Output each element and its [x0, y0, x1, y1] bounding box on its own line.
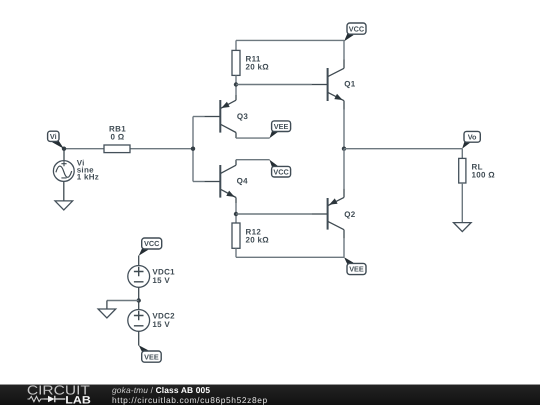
svg-text:Vo: Vo: [468, 132, 477, 141]
wire input node to RB1: [64, 148, 104, 150]
node label VCC at Q4: [269, 160, 290, 177]
svg-text:Vi: Vi: [50, 132, 57, 141]
resistor R11: [232, 50, 240, 75]
svg-text:Q3: Q3: [237, 112, 249, 121]
node label VEE at Q2: [344, 257, 366, 275]
junction supply midpoint: [137, 298, 141, 302]
voltage source VDC1: [128, 266, 150, 288]
wire Q4 collector to VCC: [235, 160, 237, 166]
junction node input: [191, 147, 195, 151]
wire Vi source top: [63, 149, 65, 161]
wire Q4 emitter to R12: [235, 198, 237, 204]
node label VCC at Q1: [344, 23, 366, 41]
footer title line: [112, 386, 210, 396]
ground at Vi: [55, 201, 73, 210]
svg-text:VCC: VCC: [273, 167, 289, 176]
footer logo CIRCUIT LAB: [0, 384, 120, 405]
wire supply mid to ground: [107, 300, 139, 302]
wire R12 bottom rail to Q2 collector: [235, 248, 237, 257]
svg-text:100 Ω: 100 Ω: [472, 171, 496, 180]
svg-text:Q4: Q4: [237, 176, 249, 185]
svg-text:VCC: VCC: [349, 24, 365, 33]
junction R12 top / Q2 base: [234, 212, 238, 216]
transistor Q4 (NPN): [220, 165, 236, 198]
label Vi sine 1 kHz: [77, 159, 99, 182]
junction R11 bottom / Q1 base: [234, 82, 238, 86]
svg-text:0 Ω: 0 Ω: [111, 132, 125, 141]
wire bias bases vertical: [192, 117, 194, 182]
wire Q2 emitter: [343, 149, 345, 189]
transistor Q2 (PNP): [328, 197, 344, 229]
svg-text:Q2: Q2: [344, 210, 356, 219]
wire output to RL: [344, 148, 462, 150]
svg-text:20 kΩ: 20 kΩ: [246, 235, 270, 244]
transistor Q3 (PNP): [220, 100, 236, 133]
svg-text:20 kΩ: 20 kΩ: [246, 63, 270, 72]
label VDC1 15V: [152, 267, 175, 285]
wire RB1 to bias input junction: [130, 148, 193, 150]
node label VCC at VDC1: [139, 238, 162, 256]
wire Q1 base: [236, 84, 312, 86]
svg-text:VEE: VEE: [349, 265, 364, 274]
transistor Q1 (NPN): [328, 68, 344, 101]
svg-text:VDC1: VDC1: [152, 267, 175, 276]
svg-text:15 V: 15 V: [152, 320, 170, 329]
resistor RL: [459, 158, 466, 183]
label R11 20k: [246, 55, 270, 72]
wire Q4 base: [193, 181, 204, 183]
wire Q2 collector: [343, 230, 345, 239]
voltage source VDC2: [128, 310, 150, 332]
ground at RL: [454, 223, 472, 232]
wire Q1 collector: [343, 40, 345, 59]
wire Q3 base: [193, 116, 204, 118]
wire VCC to VDC1: [138, 256, 140, 266]
node label Vi: [48, 131, 64, 149]
svg-text:LAB: LAB: [65, 395, 91, 405]
junction output node: [342, 147, 346, 151]
svg-text:VEE: VEE: [274, 122, 289, 131]
svg-text:1 kHz: 1 kHz: [77, 173, 99, 182]
footer url line: [112, 396, 268, 405]
wire Vo to RL: [461, 149, 463, 159]
wire Q1 emitter to output: [343, 101, 345, 110]
voltage source Vi (sine): [53, 161, 74, 182]
node label Vo: [462, 131, 480, 148]
wire R11 top to VCC rail: [235, 40, 237, 50]
resistor R12: [232, 223, 240, 248]
label RB1 0 ohm: [109, 125, 126, 142]
wire Vi source bottom: [63, 181, 65, 201]
svg-text:Q1: Q1: [344, 80, 356, 89]
logo diode: [43, 398, 48, 400]
wire Q3 collector to VEE: [235, 133, 237, 139]
node label VEE at Q3: [269, 121, 290, 138]
node label VEE at VDC2: [139, 345, 162, 362]
svg-text:VCC: VCC: [144, 239, 160, 248]
wire Q2 base: [236, 213, 312, 215]
svg-text:15 V: 15 V: [152, 276, 170, 285]
resistor RB1: [104, 145, 130, 153]
wire top rail: [236, 39, 344, 41]
wire VDC2 to VEE: [138, 331, 140, 345]
junction Vi top: [62, 147, 66, 151]
wire R11 bottom to Q3 emitter: [235, 75, 237, 95]
wire VDC1 to VDC2: [138, 287, 140, 309]
ground at supplies: [98, 309, 116, 318]
wire RL bottom: [461, 183, 463, 223]
label R12 20k: [246, 227, 270, 244]
svg-text:VEE: VEE: [144, 352, 159, 361]
logo resistor zigzag: [28, 396, 44, 401]
svg-text:VDC2: VDC2: [152, 311, 175, 320]
label VDC2 15V: [152, 311, 175, 329]
label RL 100 ohm: [472, 162, 496, 179]
